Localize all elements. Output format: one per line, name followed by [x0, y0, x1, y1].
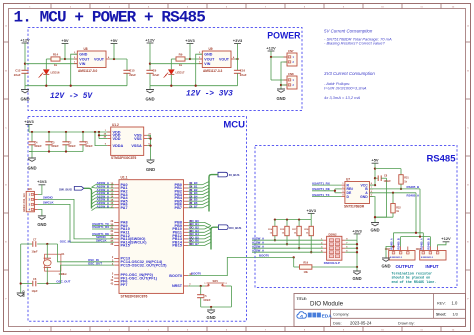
ground crystal	[17, 290, 26, 298]
POWER region dashed box	[28, 28, 302, 111]
wire +3V3 to VOUT	[189, 44, 202, 61]
wire B to connectors	[401, 189, 431, 247]
svg-text:DIO Module: DIO Module	[310, 301, 344, 308]
ground block1	[20, 86, 29, 102]
svg-text:BOOT0: BOOT0	[169, 274, 182, 278]
svg-text:USART1_RX: USART1_RX	[312, 181, 330, 185]
svg-text:Date:: Date:	[333, 321, 342, 325]
svg-text:OSC_IN: OSC_IN	[60, 240, 71, 244]
svg-text:should be placed on: should be placed on	[392, 276, 431, 281]
svg-text:+12V: +12V	[20, 37, 30, 42]
ground connectors	[276, 89, 285, 101]
power flag +3V3 (pullups)	[306, 208, 316, 214]
bus port DO_BUS	[219, 225, 242, 230]
wire crystal bottom OSC_OUT	[21, 279, 71, 286]
power flag +5V (left)	[61, 38, 69, 44]
resistor R19	[294, 257, 357, 274]
svg-text:CN7: CN7	[288, 49, 294, 53]
svg-text:USART1_DE: USART1_DE	[92, 232, 109, 236]
svg-text:3V3 Current Consumption: 3V3 Current Consumption	[324, 71, 375, 76]
capacitor C6	[32, 277, 38, 293]
svg-text:RS485_A: RS485_A	[390, 238, 394, 249]
svg-text:100nF: 100nF	[68, 144, 76, 148]
svg-text:STM32F030C8T6: STM32F030C8T6	[121, 295, 148, 299]
svg-text:GND: GND	[207, 315, 216, 320]
power flag +12V (CN3)	[441, 236, 451, 242]
resistor R17	[292, 220, 301, 250]
svg-text:GND: GND	[370, 228, 379, 233]
ground block2	[145, 86, 154, 102]
bus DI trunk	[209, 175, 218, 212]
wire U9 GND to rail	[196, 54, 203, 85]
svg-text:SWCLK: SWCLK	[43, 201, 55, 205]
svg-text:OSC_OUT: OSC_OUT	[88, 261, 102, 265]
wire USART1_RX	[92, 225, 114, 229]
wire OSC_IN to PC14	[58, 244, 115, 262]
ground decoupling	[27, 158, 36, 171]
svg-text:A3SW_A: A3SW_A	[252, 249, 265, 253]
capacitor C4	[28, 132, 42, 152]
svg-text:RS485_A: RS485_A	[407, 194, 420, 198]
resistor R31	[375, 169, 409, 190]
connector CN3	[416, 247, 446, 261]
resistor R16	[268, 220, 277, 242]
svg-text:10pF: 10pF	[32, 250, 38, 254]
svg-text:22uF: 22uF	[153, 73, 160, 77]
wire A line	[370, 192, 420, 198]
wire USART1_RX	[312, 181, 341, 185]
svg-text:- Biasing Resitors? Correct va: - Biasing Resitors? Correct value?	[324, 41, 385, 46]
capacitor C9	[146, 69, 159, 86]
svg-text:DSW2: DSW2	[329, 232, 338, 236]
power flag +12V (block2)	[145, 37, 155, 43]
LED LED17	[164, 59, 185, 86]
svg-text:DO_B7: DO_B7	[190, 242, 200, 246]
svg-text:+5V: +5V	[110, 38, 118, 43]
svg-text:SW1: SW1	[213, 280, 219, 283]
svg-text:5V Current Consumption: 5V Current Consumption	[324, 28, 373, 33]
RS485 region dashed box	[255, 146, 457, 288]
wire SWDIO	[38, 196, 114, 240]
svg-text:C2: C2	[68, 140, 72, 144]
svg-text:+12V: +12V	[145, 37, 155, 42]
svg-text:GND: GND	[22, 290, 26, 298]
power flag +3V3 (right)	[233, 38, 243, 59]
annotation 3V3 current consumption	[324, 71, 375, 100]
svg-text:C6: C6	[33, 277, 37, 281]
svg-text:22uF: 22uF	[14, 73, 21, 77]
svg-text:VDDA: VDDA	[113, 144, 124, 148]
wire 12V to U9 VIN	[150, 63, 202, 65]
svg-text:22uF: 22uF	[240, 73, 247, 77]
bus DO trunk	[211, 227, 219, 249]
svg-text:Drawn By:: Drawn By:	[398, 321, 415, 325]
switch SW1 reset	[204, 280, 227, 286]
svg-text:POWER: POWER	[267, 31, 301, 41]
wire USART1_TX	[92, 222, 114, 226]
svg-text:RS485_B: RS485_B	[426, 238, 430, 249]
wire U8 GND to rail	[71, 54, 78, 85]
svg-text:GND: GND	[146, 167, 155, 172]
bus port SW_BUS	[59, 187, 84, 192]
svg-text:OSC_OUT: OSC_OUT	[56, 279, 70, 283]
DI wires PB0-PB7	[188, 181, 209, 208]
wire +5V to VOUT	[64, 44, 77, 61]
ground rail block1	[25, 85, 127, 87]
svg-text:SWDIO: SWDIO	[43, 196, 54, 200]
svg-text:100nF: 100nF	[51, 144, 59, 148]
svg-text:GND: GND	[27, 166, 36, 171]
crystal X1	[44, 244, 68, 284]
svg-text:GND: GND	[145, 97, 154, 102]
svg-text:PB15: PB15	[172, 244, 182, 248]
wire SWCLK	[38, 201, 114, 243]
svg-text:INPUT: INPUT	[425, 264, 438, 269]
capacitor C8	[375, 175, 391, 218]
wire USART1_DE	[312, 187, 341, 193]
DO wires PB8-PB15	[188, 219, 211, 246]
regulator U9 AMS1117-3.3	[199, 47, 235, 73]
svg-text:GND: GND	[276, 96, 285, 101]
svg-text:VSSA: VSSA	[131, 144, 142, 148]
svg-text:CN2: CN2	[385, 247, 391, 251]
svg-text:SW_BUS: SW_BUS	[59, 187, 72, 191]
svg-text:VIN: VIN	[79, 62, 85, 66]
svg-text:CN8: CN8	[288, 72, 294, 76]
LED LED16	[39, 59, 60, 86]
svg-text:VDD: VDD	[113, 137, 121, 141]
svg-text:U7: U7	[346, 177, 350, 181]
svg-text:GND: GND	[352, 276, 361, 281]
power flag +12V (connectors)	[266, 45, 276, 51]
ground rail block2	[150, 85, 238, 87]
wire U1.2 VSS to gnd	[147, 135, 151, 160]
svg-text:USART1_DE: USART1_DE	[312, 187, 330, 191]
capacitor C1	[79, 132, 93, 152]
svg-text:GND: GND	[204, 53, 212, 57]
logo EasyEDA	[297, 312, 332, 320]
svg-text:+5V: +5V	[371, 158, 379, 163]
annotation 5V current consumption	[324, 28, 392, 45]
svg-text:100nF: 100nF	[203, 299, 211, 302]
wire 3V3 to H6 pin1	[38, 185, 42, 195]
wire H6 pin4 to gnd	[38, 209, 42, 216]
svg-text:USART1_TX: USART1_TX	[312, 193, 330, 197]
power flag +5V (RS485)	[371, 158, 379, 164]
bus SW_BUS trunk	[84, 188, 92, 208]
decoupling ground rail	[29, 132, 83, 153]
svg-text:100nF: 100nF	[85, 144, 93, 148]
capacitor C3	[45, 132, 59, 152]
svg-text:1.0: 1.0	[452, 301, 458, 306]
svg-text:VOUT: VOUT	[94, 57, 105, 61]
svg-text:B 2EDGRC-3: B 2EDGRC-3	[421, 257, 434, 259]
svg-text:R14: R14	[53, 53, 59, 57]
svg-text:1. MCU + POWER + RS485: 1. MCU + POWER + RS485	[14, 8, 206, 26]
wire U9 VOUT output	[235, 58, 239, 60]
svg-text:U1.1: U1.1	[121, 176, 128, 180]
svg-text:U9: U9	[209, 47, 213, 51]
svg-text:GND: GND	[20, 97, 29, 102]
capacitor C12	[14, 69, 29, 86]
wire +12V to CN3	[438, 242, 446, 247]
svg-text:+3V3: +3V3	[233, 38, 243, 43]
title block texts	[297, 297, 458, 326]
title block	[294, 294, 466, 327]
regulator U8 AMS1117-5.0	[74, 47, 110, 73]
svg-text:LED17: LED17	[176, 70, 185, 74]
svg-text:CN3: CN3	[416, 247, 422, 251]
ground H6	[37, 216, 46, 227]
wire CN8 pin2	[281, 84, 287, 86]
svg-text:RS485: RS485	[426, 154, 456, 165]
connector CN2	[385, 247, 415, 261]
svg-text:C4: C4	[34, 140, 38, 144]
svg-text:H6: H6	[28, 187, 32, 191]
ground U1.2	[146, 160, 155, 172]
svg-text:I=U/R 3V3/1000=3,3mA: I=U/R 3V3/1000=3,3mA	[324, 86, 367, 91]
svg-text:4x 3,3mA = 13,2 mA: 4x 3,3mA = 13,2 mA	[324, 95, 361, 100]
capacitor C16	[234, 59, 247, 86]
svg-text:DSIC04LS-P: DSIC04LS-P	[324, 261, 340, 265]
connector CN7	[284, 49, 298, 66]
svg-text:MCU: MCU	[223, 120, 245, 131]
svg-text:EDA: EDA	[322, 313, 333, 319]
svg-text:1k: 1k	[54, 63, 58, 67]
wire A to connectors	[394, 193, 424, 247]
wire NRST rc loop	[201, 286, 232, 308]
wire B line	[370, 185, 421, 189]
svg-text:Sheet:: Sheet:	[436, 312, 446, 316]
svg-text:12V -> 5V: 12V -> 5V	[50, 93, 93, 101]
svg-text:HDR-F 2.54_1x4: HDR-F 2.54_1x4	[23, 193, 26, 212]
MCU U1.1 STM32F030C8T6	[111, 176, 193, 299]
svg-text:+3V3: +3V3	[37, 179, 47, 184]
svg-text:+3V3: +3V3	[352, 228, 362, 233]
svg-text:SWCLK: SWCLK	[96, 239, 108, 243]
connector H6 SWD header	[23, 187, 38, 212]
svg-text:PB7: PB7	[175, 206, 182, 210]
svg-text:STM32F030C8T6: STM32F030C8T6	[111, 156, 137, 160]
transceiver U7 SN75176BDR	[341, 177, 373, 208]
svg-text:+3V3: +3V3	[185, 38, 195, 43]
svg-text:GND: GND	[79, 53, 87, 57]
svg-text:DO_BUS: DO_BUS	[229, 226, 241, 230]
svg-text:BOOT0: BOOT0	[259, 254, 269, 258]
svg-text:1/3: 1/3	[453, 312, 458, 316]
svg-text:R19: R19	[303, 261, 308, 265]
wire crystal top OSC_IN	[21, 240, 71, 247]
svg-text:LED16: LED16	[51, 70, 60, 74]
note termination resistor	[392, 271, 437, 285]
svg-text:R31: R31	[404, 177, 409, 180]
svg-text:100nF: 100nF	[384, 180, 392, 183]
capacitor C15	[123, 59, 136, 86]
resistor R32	[375, 193, 401, 217]
frame row ticks left/right	[4, 42, 471, 270]
svg-text:+12V: +12V	[441, 236, 451, 241]
net labels RS485 A B rotated CN3	[419, 238, 430, 249]
svg-text:RS485_B: RS485_B	[397, 238, 401, 249]
connector CN8	[284, 72, 298, 89]
power flag +3V3 (SWD)	[37, 179, 47, 185]
address switch wires	[252, 237, 323, 253]
svg-text:VOUT: VOUT	[204, 57, 215, 61]
svg-text:R9: R9	[179, 53, 183, 57]
wire USART1_TX	[312, 193, 341, 197]
DIP switch DSW2	[321, 232, 348, 265]
svg-text:OUTPUT: OUTPUT	[396, 264, 414, 269]
svg-text:AMS1117-5.0: AMS1117-5.0	[78, 69, 98, 73]
wire +12V to CN7	[270, 51, 287, 80]
svg-text:PA15: PA15	[121, 244, 130, 248]
wire USART1_DE	[92, 232, 114, 236]
wire VDD staircase	[95, 132, 107, 146]
svg-text:PC15-OSC32_OUT(PC15): PC15-OSC32_OUT(PC15)	[121, 263, 168, 267]
svg-text:C3: C3	[51, 140, 55, 144]
MCU power part U1.2	[104, 123, 152, 160]
wire crystal left leg	[20, 244, 22, 293]
svg-text:TITLE:: TITLE:	[297, 297, 308, 301]
svg-text:A3SW_B: A3SW_B	[97, 204, 110, 208]
svg-text:U8: U8	[84, 47, 88, 51]
svg-text:Company:: Company:	[333, 313, 349, 317]
wire CN7 pin2 to gnd	[280, 62, 287, 89]
svg-text:VOUT: VOUT	[79, 57, 90, 61]
resistor R18	[304, 220, 313, 254]
svg-text:BOOT0: BOOT0	[191, 272, 201, 276]
svg-text:AMS1117-3.3: AMS1117-3.3	[203, 69, 223, 73]
svg-text:USART1_RX: USART1_RX	[92, 225, 109, 229]
svg-text:DI_B7: DI_B7	[190, 204, 198, 208]
net labels RS485 A B rotated CN2	[390, 238, 401, 249]
wire +5V stem RS485	[374, 163, 376, 186]
wire NRST	[188, 285, 231, 287]
power flag +3V3 (decoupling)	[24, 119, 34, 125]
svg-text:22uF: 22uF	[129, 73, 136, 77]
address switch wires to PA0-PA7	[96, 181, 115, 208]
ground CN2	[381, 245, 394, 268]
wire +12V stem block2	[149, 43, 151, 70]
svg-text:REV:: REV:	[437, 302, 446, 306]
svg-text:C7: C7	[33, 238, 37, 242]
svg-text:X1: X1	[61, 252, 65, 256]
wire DSW2 common	[345, 234, 358, 271]
svg-text:+12V: +12V	[266, 45, 276, 50]
wire VCC	[370, 184, 376, 186]
svg-text:U1.2: U1.2	[112, 123, 119, 127]
wire cap gnd drop	[31, 152, 33, 159]
svg-text:1k: 1k	[179, 63, 183, 67]
svg-text:12V -> 3V3: 12V -> 3V3	[186, 91, 233, 99]
wire BOOT0	[188, 254, 295, 276]
svg-text:16MHz: 16MHz	[59, 272, 68, 276]
svg-text:+3V3: +3V3	[24, 119, 34, 124]
wire U8 VOUT output	[110, 58, 128, 60]
power flag +12V (block1)	[20, 37, 30, 43]
svg-text:C1: C1	[85, 140, 89, 144]
MCU region dashed box	[28, 117, 247, 322]
svg-text:PA7: PA7	[121, 206, 128, 210]
pullup rail	[274, 213, 311, 220]
svg-text:VIN: VIN	[204, 62, 210, 66]
wire OSC_OUT to PC15	[61, 261, 115, 283]
power flag +3V3 (DSW2)	[352, 228, 362, 234]
ground DSW2	[352, 271, 361, 281]
resistor R9	[171, 53, 190, 67]
wire 3V3 rail decoupling	[29, 125, 111, 134]
svg-text:GND: GND	[381, 263, 390, 268]
svg-text:DI_BUS: DI_BUS	[229, 173, 240, 177]
svg-text:+5V: +5V	[61, 38, 69, 43]
svg-text:NRST: NRST	[172, 284, 183, 288]
svg-text:100nF: 100nF	[34, 144, 42, 148]
ground NRST	[207, 307, 216, 320]
svg-text:RS485_B: RS485_B	[407, 185, 420, 189]
wire 12V to U8 VIN	[25, 63, 77, 65]
svg-text:+3V3: +3V3	[306, 208, 316, 213]
svg-text:Termination resistor: Termination resistor	[392, 271, 433, 276]
capacitor C2	[62, 132, 76, 152]
svg-text:GND: GND	[360, 195, 368, 199]
power flag +5V (right)	[110, 38, 118, 59]
wire +12V stem block1	[24, 43, 26, 70]
svg-text:PF7: PF7	[121, 283, 128, 287]
capacitor C5	[197, 286, 211, 307]
svg-text:10k: 10k	[304, 270, 309, 274]
bus entries SW_BUS	[92, 185, 96, 211]
svg-text:GND: GND	[37, 222, 46, 227]
svg-text:R32: R32	[396, 206, 401, 209]
svg-text:10pF: 10pF	[32, 289, 38, 293]
svg-text:2023-05-24: 2023-05-24	[350, 320, 372, 325]
capacitor C7	[32, 238, 38, 254]
svg-text:B 2EDGRC-3: B 2EDGRC-3	[390, 257, 403, 259]
bus port DI_BUS	[218, 172, 239, 177]
svg-text:SN75176BDR: SN75176BDR	[344, 205, 365, 209]
ground U7	[370, 223, 379, 233]
svg-text:VSS: VSS	[134, 137, 142, 141]
resistor R15	[280, 220, 289, 246]
svg-text:end of the RS485 line.: end of the RS485 line.	[392, 280, 437, 285]
wire U7 GND	[370, 197, 377, 223]
resistor R14	[46, 53, 65, 67]
power flag +3V3 (left)	[185, 38, 195, 44]
svg-text:VOUT: VOUT	[219, 57, 230, 61]
